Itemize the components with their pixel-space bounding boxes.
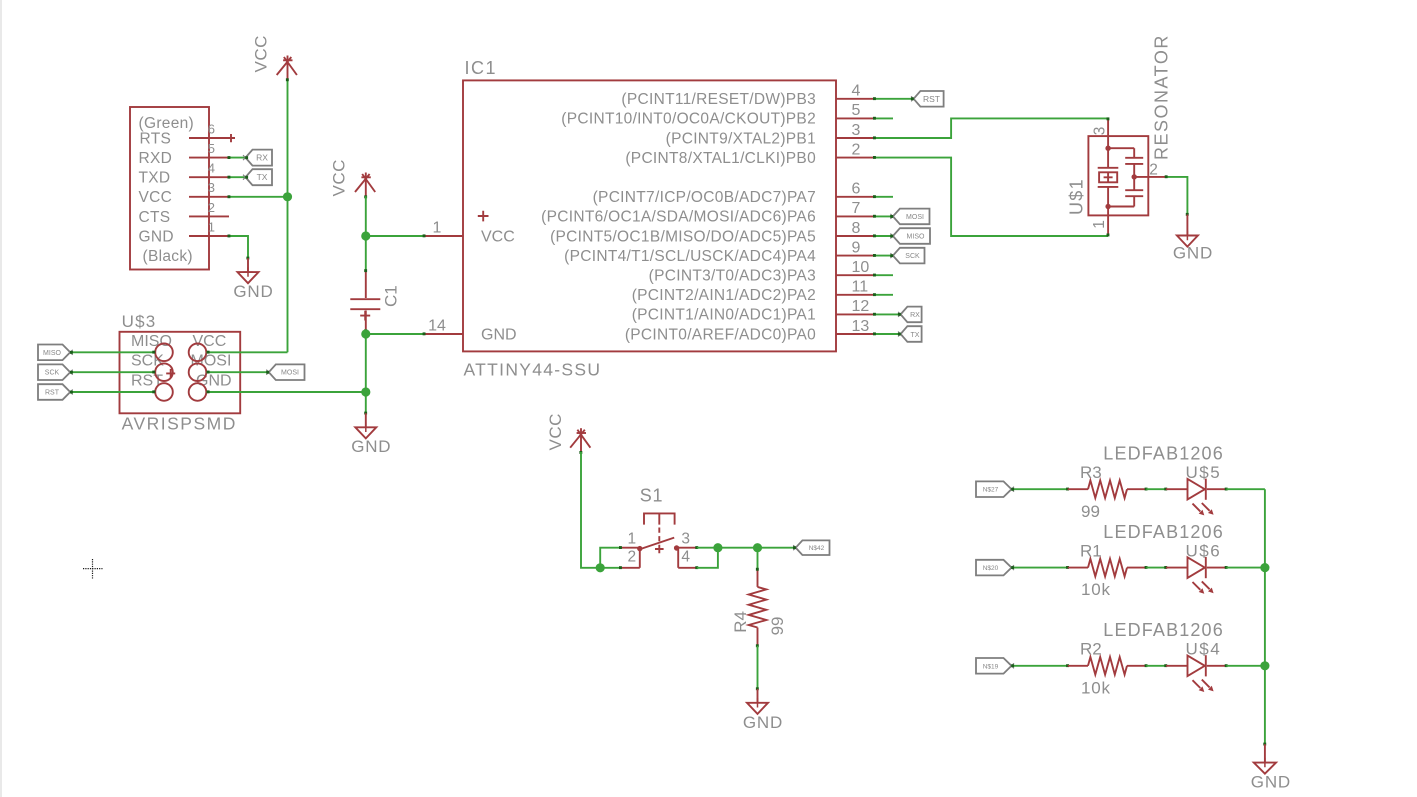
svg-text:14: 14 [428, 318, 446, 335]
svg-text:(PCINT8/XTAL1/CLKI)PB0: (PCINT8/XTAL1/CLKI)PB0 [625, 150, 816, 167]
svg-text:TXD: TXD [139, 170, 171, 187]
svg-text:7: 7 [852, 200, 861, 217]
U$3 pad MISO [155, 344, 173, 362]
wire U$3 VCC to VCC rail [207, 351, 288, 353]
svg-text:99: 99 [1081, 502, 1100, 521]
pin joint dot IC1 pin 2 [873, 156, 876, 159]
pin joint dot IC1 pin 13 [873, 332, 876, 335]
resistor R2 [1068, 640, 1147, 698]
svg-text:2: 2 [628, 549, 637, 566]
wire R1 to U$6 [1146, 567, 1166, 569]
wire TX from IC1 pin 13 [875, 333, 901, 335]
junction S1 pin 3/4 tie [713, 543, 722, 552]
svg-text:N$27: N$27 [983, 487, 999, 494]
wire stub IC1 pin 5 (PB2, open) [875, 117, 894, 119]
flag TX2 tip dot [898, 333, 901, 336]
svg-text:R3: R3 [1080, 463, 1102, 482]
C1 origin cross [360, 311, 370, 321]
wire VCC vertical rail (VCC symbol down to AVRISP VCC) [287, 79, 289, 352]
wire R2 to U$4 [1146, 665, 1166, 667]
wire N$20 to R1 [1012, 567, 1068, 569]
wire PB1 to resonator pin 3 [875, 118, 1109, 138]
power symbol VCC (top, FTDI) [277, 56, 297, 80]
svg-text:3: 3 [1092, 126, 1109, 135]
flag SCK (left) [38, 364, 73, 380]
svg-text:GND: GND [139, 228, 174, 245]
pin joint dot S1 pin 2 [619, 566, 622, 569]
wire RST flag to U$3 [70, 391, 155, 393]
U$1 internal node dot bottom [1105, 204, 1110, 209]
pin joint dot IC1 pin 4 [873, 97, 876, 100]
pin joint dot R3 right [1145, 488, 1148, 491]
pin joint dot IC1 pin 14 [423, 332, 426, 335]
flag RST (at IC1 PB3) [911, 91, 944, 107]
wire N$19 to R2 [1012, 665, 1068, 667]
pin joint dot R4 top [756, 568, 759, 571]
wire MISO flag to U$3 [70, 351, 155, 353]
pin joint dot S1 pin 3 [695, 546, 698, 549]
U$6 emission arrow 2 [1202, 581, 1210, 589]
pin joint dot GND (LED bus) [1263, 743, 1266, 746]
svg-text:U$5: U$5 [1186, 463, 1222, 482]
svg-text:(PCINT11/RESET/DW)PB3: (PCINT11/RESET/DW)PB3 [621, 91, 816, 108]
flag SCK tip dot [890, 254, 893, 257]
wire net TX from FTDI pin 4 [229, 176, 246, 178]
IC1 pin 4 stub PB3 [836, 98, 875, 100]
pin joint dot IC1 pin 5 [873, 117, 876, 120]
svg-text:MOSI: MOSI [906, 214, 924, 221]
S1 actuator bracket [644, 513, 675, 524]
flag N$42 tip dot [793, 546, 796, 549]
flag N$42 [793, 540, 829, 555]
wire SCK flag to U$3 [70, 371, 155, 373]
svg-text:8: 8 [852, 220, 861, 237]
svg-text:(PCINT4/T1/SCL/USCK/ADC4)PA4: (PCINT4/T1/SCL/USCK/ADC4)PA4 [564, 248, 816, 265]
wire S1 pin 4 branch (over and up) [697, 548, 718, 568]
svg-text:10: 10 [852, 259, 870, 276]
junction VCC rail / FTDI pin 3 [283, 192, 292, 201]
pin joint dot IC1 pin 1 [423, 234, 426, 237]
S1 internal link 1-2 [639, 548, 641, 568]
U$3 pad GND [189, 383, 207, 401]
U$1 cap bottom lead [1133, 197, 1135, 207]
flag TX (at IC1 PA0) [898, 326, 922, 342]
flag N$27 [976, 481, 1014, 497]
wire stub IC1 pin 6 (PA7, open) [875, 196, 894, 198]
svg-text:5: 5 [208, 141, 215, 156]
svg-text:(PCINT7/ICP/OC0B/ADC7)PA7: (PCINT7/ICP/OC0B/ADC7)PA7 [593, 189, 816, 206]
U$1 top link to caps [1108, 147, 1134, 149]
wire N$27 to R3 [1012, 488, 1068, 490]
svg-text:1: 1 [628, 531, 637, 548]
svg-text:3: 3 [681, 531, 690, 548]
pin joint dot U$1 pin 1 [1107, 234, 1110, 237]
U$1 crystal bottom lead [1107, 187, 1109, 207]
svg-text:6: 6 [208, 121, 215, 136]
flag MOSI (at IC1 PA6) [890, 209, 929, 225]
svg-text:GND: GND [233, 282, 273, 301]
pin joint dot S1 pin 4 [695, 566, 698, 569]
flag TX tip dot [245, 176, 248, 179]
pin joint dot FTDI TXD [228, 176, 231, 179]
junction GND net / U$3 GND wire [361, 387, 370, 396]
S1 pin 2 stub [621, 567, 640, 569]
junction GND net / IC1 pin 14 [361, 329, 370, 338]
svg-text:1: 1 [433, 220, 442, 237]
svg-text:13: 13 [852, 318, 870, 335]
wire SCK from IC1 pin 9 [875, 255, 893, 257]
flag MISO (at IC1 PA5) [890, 228, 930, 244]
svg-text:11: 11 [852, 279, 869, 296]
flag RST (left) [38, 384, 73, 400]
ground symbol GND (R4) [747, 689, 768, 714]
svg-text:VCC: VCC [193, 333, 227, 350]
IC1 pin 9 stub PA4 [836, 255, 875, 257]
svg-text:3: 3 [852, 122, 861, 139]
U$3 pad MOSI [189, 363, 207, 381]
junction VCC wire / S1 pin 1 branch [596, 563, 605, 572]
svg-text:(PCINT9/XTAL2)PB1: (PCINT9/XTAL2)PB1 [666, 130, 816, 147]
LED U$5 [1103, 444, 1226, 516]
pin joint dot FTDI GND [228, 235, 231, 238]
wire U$1 pin 2 to GND [1166, 177, 1187, 215]
S1 internal link 3-4 [677, 548, 679, 567]
svg-text:VCC: VCC [139, 189, 173, 206]
resistor R3 [1068, 463, 1147, 521]
U$1 origin cross [1104, 173, 1113, 182]
wire stub IC1 pin 11 (PA2, open) [875, 294, 894, 296]
U$1 crystal top lead [1107, 148, 1109, 168]
flag RX (at IC1 PA1) [898, 307, 922, 323]
IC1 pin 11 stub PA2 [836, 294, 875, 296]
wire junction down to R4 [757, 548, 759, 570]
svg-text:(PCINT2/AIN1/ADC2)PA2: (PCINT2/AIN1/ADC2)PA2 [632, 287, 816, 304]
svg-text:9: 9 [852, 239, 861, 256]
svg-text:RST: RST [45, 390, 60, 397]
wire RX from IC1 pin 12 [875, 313, 901, 315]
wire MOSI from IC1 pin 7 [875, 215, 893, 217]
ground symbol GND (resonator) [1177, 215, 1198, 247]
U$1 pin 1 stub [1107, 207, 1109, 237]
svg-text:4: 4 [681, 549, 690, 566]
svg-text:RTS: RTS [140, 130, 172, 147]
svg-text:(Black): (Black) [143, 248, 193, 265]
flag MISO (left) [38, 345, 73, 361]
FTDI pin 5 stub (RXD) [189, 157, 229, 159]
connector U$3 AVRISPSMD [120, 312, 241, 434]
svg-text:VCC: VCC [252, 35, 271, 72]
svg-text:(PCINT6/OC1A/SDA/MOSI/ADC6)PA6: (PCINT6/OC1A/SDA/MOSI/ADC6)PA6 [541, 209, 816, 226]
flag RX (at FTDI) [243, 150, 272, 166]
U$1 top cap plate 1 [1125, 157, 1143, 159]
svg-text:(PCINT0/AREF/ADC0)PA0: (PCINT0/AREF/ADC0)PA0 [625, 326, 816, 343]
IC1 pin 12 stub PA1 [836, 313, 875, 315]
switch S1 [621, 486, 697, 568]
IC1 pin 3 stub PB1 [836, 137, 875, 139]
pin joint dot R4 bottom [756, 644, 759, 647]
U$1 body outline [1088, 136, 1148, 215]
flag MOSI tip dot [890, 215, 893, 218]
svg-text:GND: GND [351, 437, 391, 456]
wire GND bus vertical [1264, 489, 1266, 744]
U$5 emission arrow 1 [1193, 504, 1201, 512]
pin joint dot U$4 cathode [1225, 664, 1228, 667]
svg-text:GND: GND [743, 713, 783, 732]
flag SCK left tip dot [70, 371, 73, 374]
junction VCC rail / IC1 pin 1 [361, 231, 370, 240]
flag N$19 [976, 658, 1014, 674]
svg-text:SCK: SCK [45, 370, 60, 377]
S1 pin 3 stub [674, 547, 697, 549]
U$4 emission arrow 1 [1193, 680, 1201, 688]
pin joint dot IC1 pin 8 [873, 234, 876, 237]
U$1 crystal top plate [1098, 167, 1119, 169]
S1 actuator dashed link [658, 528, 660, 544]
svg-text:RST: RST [131, 373, 163, 390]
pin joint dot U$3 MISO [152, 351, 155, 354]
svg-text:(PCINT10/INT0/OC0A/CKOUT)PB2: (PCINT10/INT0/OC0A/CKOUT)PB2 [561, 111, 816, 128]
flag N$20 [976, 560, 1014, 576]
pin joint dot IC1 pin 3 [873, 136, 876, 139]
S1 pin 1 stub [621, 547, 640, 549]
flag RST tip dot [911, 97, 914, 100]
wire GND from FTDI pin 1 [229, 236, 248, 258]
IC1 pin 1 stub [424, 235, 463, 237]
flag RX tip dot [245, 156, 248, 159]
svg-text:2: 2 [208, 200, 215, 215]
U$1 bottom cap plate 1 [1125, 189, 1143, 191]
pin joint dot U$6 cathode [1225, 566, 1228, 569]
U$1 bottom cap plate 2 [1125, 195, 1143, 197]
U$4 emission arrow 2 [1202, 680, 1210, 688]
IC1 pin 8 stub PA5 [836, 235, 875, 237]
flag N$27 tip dot [1011, 488, 1014, 491]
pin joint dot U$3 VCC [207, 351, 210, 354]
pin joint dot C1 bottom [364, 329, 367, 332]
svg-text:SCK: SCK [905, 253, 920, 260]
pin joint dot U$1 pin 3 [1107, 117, 1110, 120]
wire U$3 GND to C1/GND net [207, 391, 366, 393]
FTDI body outline [130, 107, 209, 270]
U$1 mid lead [1133, 165, 1135, 190]
wire U$5 to GND bus [1226, 488, 1265, 490]
svg-text:12: 12 [852, 298, 870, 315]
pin joint dot U$3 MOSI [207, 371, 210, 374]
svg-text:IC1: IC1 [465, 58, 498, 78]
flag MISO left tip dot [70, 351, 73, 354]
flag RST left tip dot [70, 391, 73, 394]
svg-text:10k: 10k [1081, 678, 1111, 697]
svg-text:1: 1 [1091, 220, 1108, 229]
S1 throw dot [674, 545, 679, 550]
junction GND bus / U$4 [1260, 661, 1269, 670]
pin joint dot IC1 pin 12 [873, 313, 876, 316]
svg-text:U$1: U$1 [1067, 178, 1087, 215]
LED U$6 [1103, 522, 1226, 594]
pin joint dot R1 left [1066, 566, 1069, 569]
wire U$4 to GND bus [1226, 665, 1265, 667]
U$1 internal node dot mid (pin 2) [1132, 174, 1137, 179]
svg-text:ATTINY44-SSU: ATTINY44-SSU [464, 360, 602, 380]
capacitor C1 [350, 269, 400, 332]
pin joint dot GND symbol (C1 rail) [364, 412, 367, 415]
pin joint dot U$1 pin 2 [1165, 175, 1168, 178]
resistor R4 [731, 568, 787, 647]
svg-text:6: 6 [852, 181, 861, 198]
IC1 pin 2 stub PB0 [836, 157, 875, 159]
FTDI pin 1 stub (GND) [189, 235, 229, 237]
svg-text:TX: TX [257, 172, 268, 182]
junction N$42 / R4 [753, 543, 762, 552]
ground symbol GND (FTDI) [238, 258, 259, 283]
pin joint dot U$3 SCK [152, 371, 155, 374]
U$1 pin 3 stub [1107, 118, 1109, 148]
svg-text:VCC: VCC [546, 413, 565, 450]
C1 top plate [350, 298, 380, 300]
U$3 body outline [120, 332, 241, 414]
IC1 body outline [463, 80, 836, 351]
U$1 cap top lead [1133, 148, 1135, 157]
U$1 crystal body [1099, 172, 1117, 182]
svg-text:RX: RX [256, 153, 268, 163]
svg-text:RXD: RXD [139, 150, 173, 167]
C1 bottom lead [365, 311, 367, 331]
svg-text:U$4: U$4 [1186, 640, 1222, 659]
pin joint dot U$3 GND [207, 390, 210, 393]
svg-text:RX: RX [910, 312, 920, 319]
svg-text:R4: R4 [731, 611, 750, 633]
R4 zigzag body [749, 587, 767, 628]
FTDI pin 6 unconnected cross [227, 134, 235, 142]
C1 bottom plate [350, 308, 380, 310]
IC1 pin 7 stub PA6 [836, 215, 875, 217]
svg-text:MOSI: MOSI [281, 370, 299, 377]
wire VCC symbol down to C1 top [365, 196, 367, 270]
pin joint dot R1 right [1145, 566, 1148, 569]
IC1 pin 5 stub PB2 [836, 117, 875, 119]
flag N$20 tip dot [1011, 566, 1014, 569]
wire net RX from FTDI pin 5 [229, 157, 246, 159]
svg-text:R1: R1 [1080, 541, 1102, 560]
pin joint dot FTDI GND symbol [246, 257, 249, 260]
flag SCK (at IC1 PA4) [890, 248, 924, 264]
pin joint dot C1 top [364, 269, 367, 272]
wire GND net to IC1 pin 14 [366, 333, 424, 335]
power symbol VCC (switch) [570, 428, 590, 452]
power symbol VCC (C1 rail) [355, 173, 375, 197]
S1 pin 4 stub [678, 567, 697, 569]
pin joint dot VCC symbol (C1 rail) [364, 195, 367, 198]
S1 pivot dot [637, 546, 642, 551]
svg-text:LEDFAB1206: LEDFAB1206 [1103, 522, 1224, 542]
svg-text:GND: GND [1173, 244, 1213, 263]
svg-text:99: 99 [768, 616, 787, 635]
ground symbol GND (C1 rail) [355, 413, 376, 438]
svg-text:(PCINT3/T0/ADC3)PA3: (PCINT3/T0/ADC3)PA3 [649, 268, 816, 285]
svg-text:AVRISPSMD: AVRISPSMD [122, 414, 237, 434]
wire R4 to GND [757, 646, 759, 689]
U$1 bottom link [1108, 206, 1134, 208]
pin joint dot IC1 pin 9 [873, 254, 876, 257]
FTDI pin 3 stub (VCC) [189, 196, 229, 198]
wire VCC down and right to S1 pin 2 [581, 452, 621, 568]
svg-text:(PCINT5/OC1B/MISO/DO/ADC5)PA5: (PCINT5/OC1B/MISO/DO/ADC5)PA5 [550, 228, 816, 245]
wire VCC from FTDI pin 3 to vertical VCC rail [229, 196, 288, 198]
wire U$6 to GND bus [1226, 567, 1265, 569]
svg-text:VCC: VCC [330, 159, 349, 196]
svg-text:TX: TX [911, 332, 920, 339]
wire MISO from IC1 pin 8 [875, 235, 893, 237]
C1 top lead [365, 271, 367, 298]
svg-text:LEDFAB1206: LEDFAB1206 [1103, 444, 1224, 464]
flag MOSI right tip dot [266, 371, 269, 374]
svg-text:10k: 10k [1081, 580, 1111, 599]
cursor crosshair [83, 559, 103, 579]
svg-text:GND: GND [1251, 772, 1291, 791]
resistor R1 [1068, 541, 1147, 599]
svg-text:N$42: N$42 [809, 545, 825, 552]
svg-text:VCC: VCC [481, 229, 515, 246]
svg-text:4: 4 [208, 161, 215, 176]
svg-text:CTS: CTS [139, 209, 171, 226]
U$3 pad RST [155, 383, 173, 401]
pin joint dot R2 right [1145, 664, 1148, 667]
IC1 pin 10 stub PA3 [836, 274, 875, 276]
U$1 internal node dot top [1105, 146, 1110, 151]
svg-text:SCK: SCK [131, 353, 164, 370]
pin joint dot IC1 pin 11 [873, 293, 876, 296]
R4 top lead [757, 569, 759, 587]
pin joint dot R3 left [1066, 488, 1069, 491]
pin joint dot S1 pin 1 [619, 546, 622, 549]
svg-text:5: 5 [852, 102, 861, 119]
FTDI pin 4 stub (TXD) [189, 176, 229, 178]
svg-text:U$6: U$6 [1186, 541, 1222, 560]
pin joint dot GND (resonator) [1186, 213, 1189, 216]
wire stub IC1 pin 10 (PA3, open) [875, 274, 894, 276]
wire C1 bottom to GND net [365, 331, 367, 413]
U$6 emission arrow 1 [1193, 582, 1201, 590]
FTDI pin 6 stub (RTS) [189, 137, 229, 139]
flag N$19 tip dot [1011, 664, 1014, 667]
svg-text:GND: GND [481, 327, 517, 344]
svg-text:4: 4 [852, 83, 861, 100]
R4 bottom lead [757, 628, 759, 646]
S1 contact blade [639, 538, 674, 550]
svg-text:N$20: N$20 [983, 565, 999, 572]
pin joint dot VCC symbol (switch) [579, 451, 582, 454]
U$3 pad SCK [155, 363, 173, 381]
wire VCC rail to IC1 pin 1 [366, 235, 424, 237]
svg-text:C1: C1 [382, 285, 401, 307]
flag MOSI (right of U$3) [266, 364, 304, 380]
svg-text:MISO: MISO [131, 333, 172, 350]
pin joint dot FTDI RXD [228, 156, 231, 159]
FTDI pin 2 stub (CTS) [189, 215, 229, 217]
svg-text:LEDFAB1206: LEDFAB1206 [1103, 620, 1224, 640]
pin joint dot IC1 pin 7 [873, 215, 876, 218]
ground symbol GND (LED bus) [1254, 744, 1276, 774]
svg-text:2: 2 [1149, 162, 1158, 179]
svg-text:R2: R2 [1080, 640, 1102, 659]
connector FTDI header (6-pin serial) [130, 107, 235, 270]
U$5 emission arrow 2 [1202, 503, 1210, 511]
pin joint dot IC1 pin 6 [873, 195, 876, 198]
svg-text:U$3: U$3 [122, 312, 157, 331]
IC1 origin cross [478, 211, 489, 222]
wire U$3 MOSI to flag [207, 371, 269, 373]
svg-text:RESONATOR: RESONATOR [1152, 34, 1172, 160]
